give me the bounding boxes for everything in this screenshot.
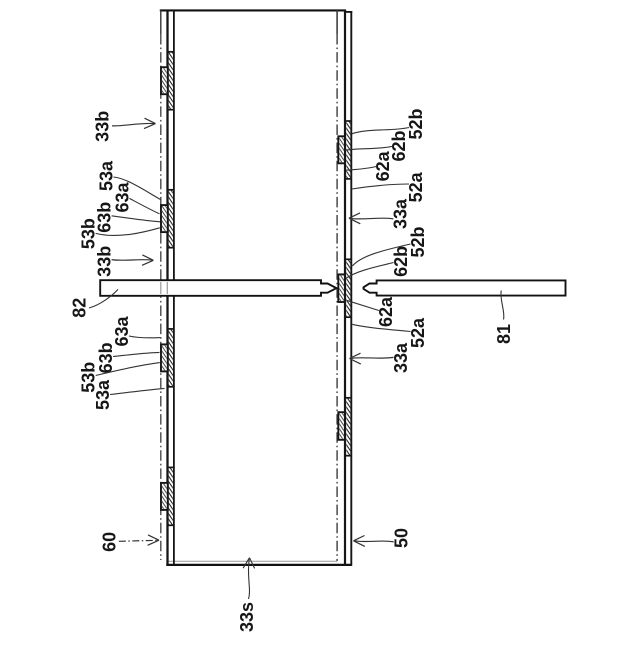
svg-text:63a: 63a [112,316,132,347]
svg-text:60: 60 [99,532,119,552]
seal 52a R3: right protruding block [338,412,345,440]
label 33a upper with arrow [349,198,411,229]
label 82 with leader [70,289,118,317]
label 63a upper with leader [112,182,159,214]
svg-text:62b: 62b [391,246,411,277]
label 50 with arrow [354,528,412,548]
label 33s with arrow [237,558,257,632]
label 33b lower with arrow [95,246,154,277]
seal 53b U2: left channel hatch segment [168,190,174,249]
wire: faint wall lines crossing tab 82 [160,282,162,294]
seal 52a R2: right protruding block [338,274,345,302]
label 53a upper with leader [97,160,161,199]
label 62a lower-right with leader [347,296,397,327]
label 52b lower-right with leader [352,226,428,266]
terminal 81: right electrode tab body [364,280,566,295]
svg-text:53a: 53a [93,379,113,410]
label 62a upper-right with leader [346,150,393,181]
node 33b: left chain line (solid top stub) [160,10,162,34]
label 53a lower with leader [93,379,165,410]
wire: faint inner bottom line [167,560,337,562]
label 63b lower with leader [96,342,160,373]
label 62b upper-right with leader [345,130,409,161]
svg-text:33s: 33s [237,602,257,632]
label 33a lower with arrow [350,342,412,373]
seal 53a U1: left protruding block [161,67,168,94]
wire: top step to outer wall [345,11,352,13]
svg-text:33a: 33a [391,198,411,229]
svg-text:62a: 62a [373,150,393,181]
svg-text:50: 50 [391,528,411,548]
seal 53b U3: left channel hatch segment [168,329,174,388]
seal 53b U4: left channel hatch segment [168,467,174,525]
svg-text:63a: 63a [112,182,132,213]
node 33b: left chain line dash-dot [160,34,162,560]
label 52b upper-right with leader [352,108,426,139]
seal 52b R2: right channel hatch segment [346,259,352,318]
label 62b lower-right with leader [346,246,411,278]
svg-text:33a: 33a [391,342,411,373]
wire: left wall inner line L2 [166,10,168,566]
svg-text:63b: 63b [96,342,116,373]
seal 52b R3: right channel hatch segment [346,398,352,457]
wire: right wall outer line C [350,11,352,566]
svg-text:52a: 52a [406,171,426,202]
wire: left wall line L3 lower [173,296,175,564]
svg-text:82: 82 [70,298,90,318]
label 63a lower with leader [112,316,161,347]
wire: top wall line of case [160,9,346,11]
seal 52a R1: right protruding block [338,136,345,163]
node 33a: right chain line dash-dot [336,34,338,561]
label 52a lower-right with leader [352,317,428,348]
label 53b lower with leader [79,362,160,393]
svg-text:62a: 62a [376,296,396,327]
seal 53a U2: left protruding block [161,205,168,232]
wire: bottom wall line of case [166,564,351,566]
label 52a upper-right with leader [352,171,426,202]
label 53b upper with leader [79,218,160,249]
svg-text:33b: 33b [93,111,113,142]
svg-text:52b: 52b [406,108,426,139]
label 63b upper with leader [95,202,161,233]
seal 53a U3: left protruding block [161,344,168,371]
seal 53a U4: left protruding block [161,483,168,510]
seal 52b R1: right channel hatch segment [346,121,352,180]
svg-text:33b: 33b [95,246,115,277]
svg-text:81: 81 [494,324,514,344]
label 81 with leader [494,291,514,345]
terminal 82: left electrode tab body [100,280,336,296]
svg-text:52a: 52a [408,317,428,348]
wire: right wall inner line B [344,10,346,566]
seal 53b U1: left channel hatch segment [168,52,174,111]
node 33a: right chain line (solid top stub) [336,10,338,34]
label 33b upper with arrow [93,111,156,142]
wire: left wall line L3 upper [173,10,175,280]
label 60 with dash-dot arrow [99,532,159,552]
